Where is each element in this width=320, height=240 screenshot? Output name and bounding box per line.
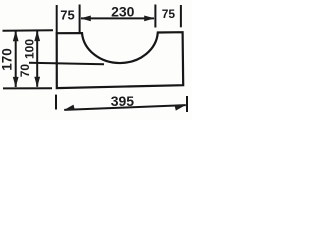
- extension line: bottom level (left side): [3, 87, 52, 89]
- dimension line 230: [81, 17, 154, 19]
- arrowhead 170 down: [13, 77, 19, 88]
- extension line: 395 left: [55, 95, 57, 110]
- arrowhead 70 down: [34, 77, 40, 88]
- svg-text:230: 230: [111, 4, 135, 20]
- arrowhead 100 up: [34, 31, 40, 41]
- paper background: [0, 0, 192, 120]
- extension line: left 75 (outer, merges into left edge): [56, 5, 58, 33]
- svg-text:75: 75: [60, 8, 74, 23]
- extension line: dish bottom level (left side): [29, 63, 104, 64]
- dimension line 100/70 shared: [36, 31, 38, 87]
- extension line: right 75 (inner): [154, 5, 156, 28]
- svg-text:100: 100: [22, 39, 36, 59]
- block outline with dished (half-ellipse) channel: [57, 32, 184, 88]
- extension line: right 75 (outer): [180, 5, 182, 27]
- extension line: left 75 (inner): [79, 5, 81, 34]
- extension line: top level (left side): [3, 29, 54, 32]
- dimension line 395: [64, 105, 186, 110]
- svg-text:395: 395: [111, 93, 135, 109]
- arrowhead 230 right: [144, 16, 155, 22]
- svg-text:70: 70: [18, 64, 32, 78]
- arrowhead 395 right: [174, 105, 185, 111]
- arrowhead 170 up: [13, 31, 19, 42]
- svg-text:75: 75: [162, 7, 176, 21]
- extension line: 395 right: [186, 96, 188, 112]
- svg-text:170: 170: [0, 48, 14, 71]
- arrowhead 230 left: [80, 16, 91, 22]
- dimension line 170: [15, 31, 17, 87]
- arrowhead 395 left: [64, 105, 75, 111]
